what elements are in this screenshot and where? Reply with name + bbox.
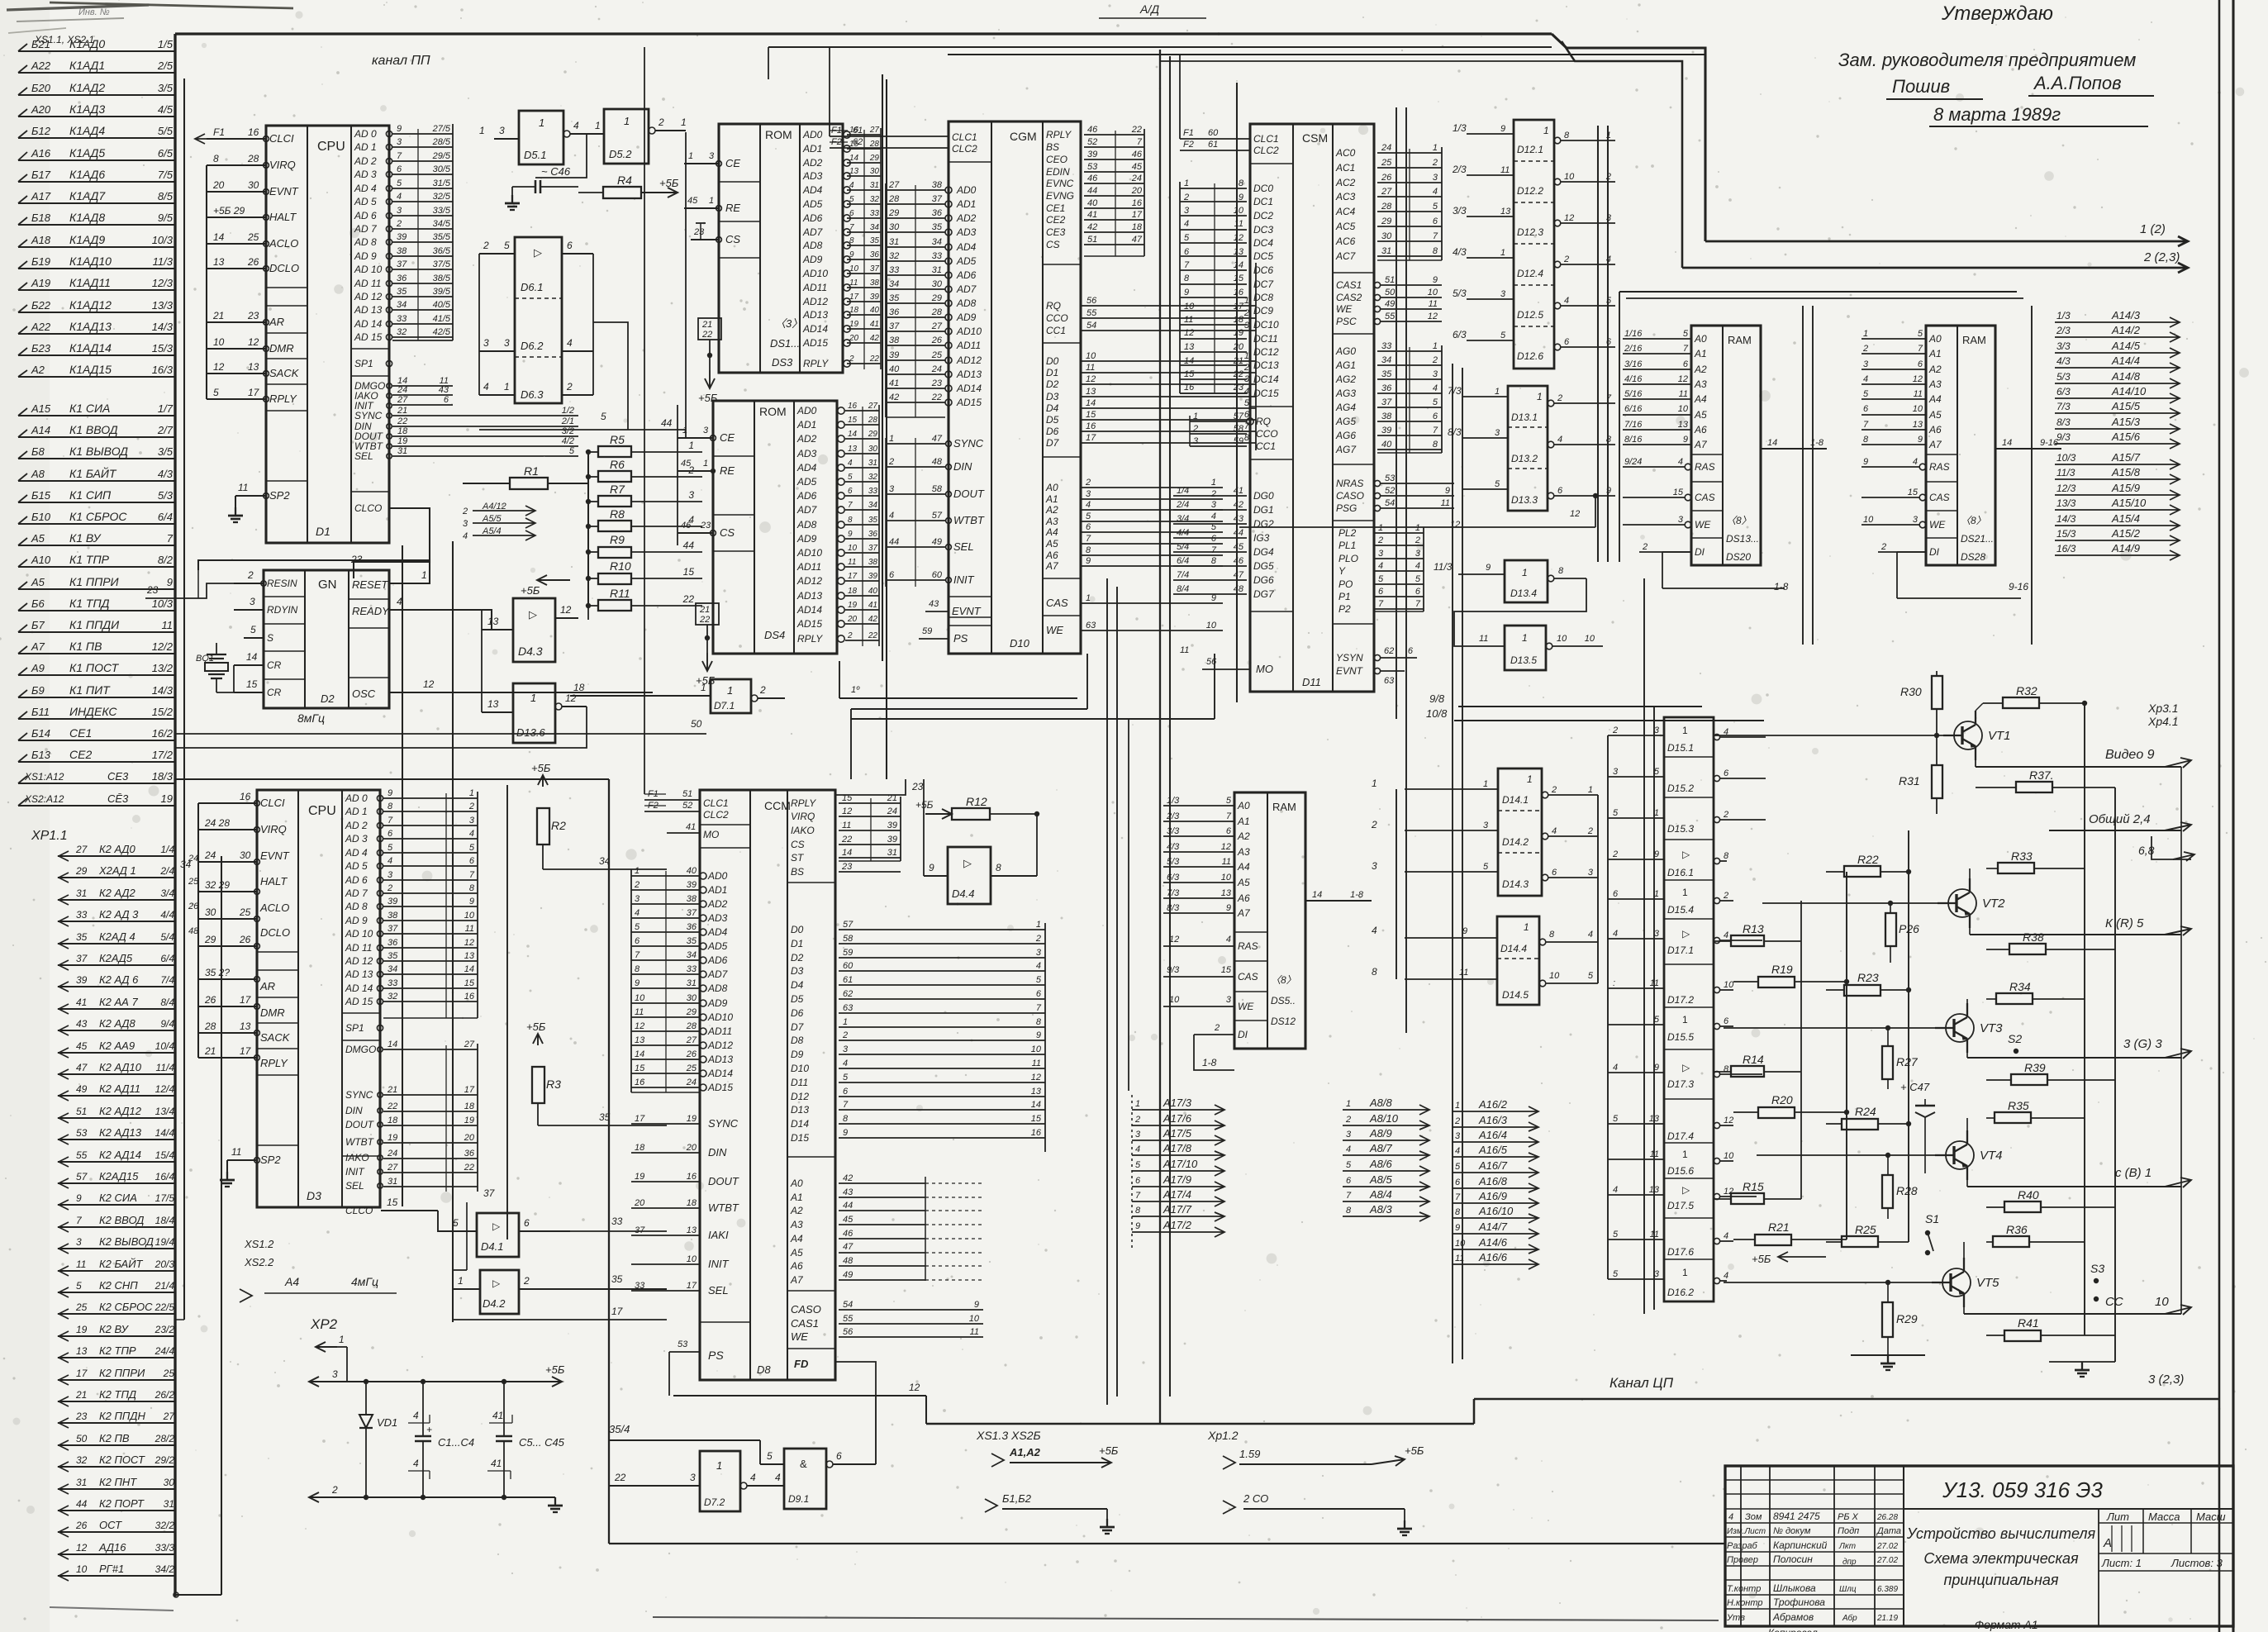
connector pin &#1050;1&#1040;&#1044;1	[18, 72, 176, 74]
svg-text:AD12: AD12	[802, 296, 828, 307]
svg-text:13: 13	[464, 951, 475, 961]
wire D14 output	[1542, 792, 1548, 798]
svg-text:26/2: 26/2	[155, 1389, 175, 1401]
analog ground rail	[1851, 1354, 1925, 1356]
svg-text:1: 1	[1500, 248, 1505, 258]
svg-text:Инв. №: Инв. №	[78, 7, 110, 17]
svg-text:2: 2	[1371, 819, 1377, 830]
svg-text:10: 10	[76, 1563, 88, 1575]
svg-text:D2: D2	[1046, 378, 1059, 390]
svg-text:AD 2: AD 2	[354, 155, 377, 167]
svg-text:10: 10	[1221, 873, 1232, 883]
svg-text:AD1: AD1	[956, 198, 976, 210]
transistor VT4	[1946, 1141, 1974, 1169]
svg-text:1: 1	[1086, 593, 1091, 603]
svg-text:D15: D15	[791, 1132, 809, 1144]
svg-text:AD 0: AD 0	[354, 128, 377, 140]
svg-text:3: 3	[1433, 173, 1438, 183]
svg-text:13: 13	[487, 616, 499, 627]
connector pin &#1050;2 &#1040;&#1044;13	[58, 1139, 176, 1140]
svg-text:53: 53	[678, 1339, 688, 1349]
svg-text:41: 41	[868, 601, 877, 610]
svg-text:30: 30	[870, 167, 880, 176]
svg-text:AD 7: AD 7	[354, 223, 378, 235]
net &#1040;17/7	[1132, 1216, 1224, 1217]
svg-text:К1АД2: К1АД2	[69, 81, 105, 94]
svg-text:9/8: 9/8	[1429, 692, 1445, 705]
wire D12 output	[1554, 261, 1561, 268]
svg-text:ACLO: ACLO	[259, 902, 289, 914]
logic D13.1-D13.3 stack	[1508, 386, 1548, 511]
svg-text:Зом: Зом	[1745, 1512, 1762, 1522]
wire 5/3 to D12	[1467, 298, 1514, 300]
svg-text:34: 34	[687, 950, 697, 960]
svg-text:12: 12	[560, 604, 572, 616]
svg-text:AD 10: AD 10	[345, 928, 373, 940]
svg-text:7: 7	[1086, 534, 1091, 544]
svg-text:VT2: VT2	[1982, 897, 2005, 911]
svg-text:27: 27	[1381, 187, 1392, 197]
svg-text:EVNT: EVNT	[260, 849, 290, 862]
svg-text:К2 АД11: К2 АД11	[99, 1082, 140, 1095]
svg-text:6: 6	[567, 240, 573, 251]
svg-text:К1АД11: К1АД11	[69, 276, 111, 289]
svg-text:12: 12	[213, 361, 225, 373]
svg-text:К2 СНП: К2 СНП	[99, 1279, 138, 1292]
net &#1040;14/5	[2055, 352, 2180, 354]
svg-text:18: 18	[635, 1143, 645, 1153]
connector pin &#1050;2 &#1042;&#1042;&#1054;&#1044;	[58, 1226, 176, 1228]
svg-text:3: 3	[1086, 489, 1091, 499]
svg-text:6: 6	[1086, 522, 1091, 532]
svg-text:D8: D8	[791, 1035, 804, 1046]
svg-text:8: 8	[1239, 178, 1244, 188]
svg-text:30: 30	[240, 849, 251, 861]
svg-text:AD 4: AD 4	[354, 183, 377, 194]
svg-text:20: 20	[1131, 186, 1143, 196]
svg-text:1: 1	[1682, 1267, 1688, 1278]
transistor VT1	[1954, 721, 1982, 749]
svg-text:8: 8	[1724, 851, 1729, 861]
svg-text:D15.1: D15.1	[1667, 742, 1694, 754]
svg-text:А8/7: А8/7	[1369, 1142, 1393, 1154]
connector pin &#1050;2 &#1040;&#1044;8	[58, 1030, 176, 1031]
svg-text:9/24: 9/24	[1624, 457, 1642, 467]
svg-text:38: 38	[397, 246, 407, 256]
svg-text:PSG: PSG	[1336, 502, 1357, 514]
svg-text:4: 4	[1086, 500, 1091, 510]
svg-text:A0: A0	[790, 1178, 803, 1189]
svg-text:AD2: AD2	[956, 212, 977, 224]
svg-text:4: 4	[483, 381, 489, 393]
svg-text:ST: ST	[791, 852, 805, 864]
svg-text:5: 5	[1346, 1160, 1352, 1170]
svg-text:~ C46: ~ C46	[541, 165, 571, 178]
svg-text:AC0: AC0	[1335, 147, 1356, 159]
svg-text:DCLO: DCLO	[269, 262, 299, 274]
wire from D15-D17	[1714, 987, 1719, 992]
svg-text:AD4: AD4	[707, 926, 728, 938]
svg-text:R11: R11	[610, 587, 630, 600]
svg-text:18: 18	[1132, 222, 1143, 232]
svg-text:D10: D10	[791, 1063, 809, 1074]
svg-text:4: 4	[1552, 826, 1557, 836]
svg-text:16/3: 16/3	[152, 364, 174, 376]
svg-text:27: 27	[686, 1035, 697, 1045]
svg-text:DC1: DC1	[1253, 196, 1273, 207]
svg-text:PS: PS	[953, 632, 968, 645]
svg-text:3/3: 3/3	[2056, 340, 2071, 352]
wire D12 output	[1554, 137, 1561, 144]
wire to D14 stack	[1405, 788, 1498, 790]
CSM D11 body	[1250, 124, 1374, 692]
connector pin &#1050;2 &#1055;&#1055;&#1056;&#1048;	[58, 1379, 176, 1381]
resistor R11	[598, 600, 631, 611]
wire to D14 stack	[1405, 871, 1498, 873]
svg-text:1: 1	[1682, 725, 1688, 736]
connector pin &#1050;2 &#1055;&#1053;&#1058;	[58, 1488, 176, 1490]
svg-text:9/4: 9/4	[160, 1018, 174, 1030]
svg-text:30: 30	[687, 993, 697, 1003]
svg-text:55: 55	[843, 1314, 853, 1324]
svg-text:4: 4	[848, 459, 853, 468]
connector pin &#1050;1&#1040;&#1044;15	[18, 376, 176, 378]
svg-text:1: 1	[1184, 178, 1189, 188]
svg-text:4: 4	[413, 1458, 419, 1469]
svg-text:AD3: AD3	[802, 170, 823, 182]
svg-text:11: 11	[1222, 857, 1231, 867]
svg-text:А8/6: А8/6	[1369, 1158, 1393, 1170]
svg-text:1: 1	[1588, 785, 1593, 795]
svg-text:4: 4	[1184, 219, 1189, 229]
svg-text:28: 28	[204, 1021, 216, 1032]
svg-text:11: 11	[1455, 1254, 1464, 1263]
svg-text:57: 57	[932, 511, 943, 521]
svg-text:Канал ЦП: Канал ЦП	[1609, 1375, 1674, 1391]
svg-text:12: 12	[1428, 312, 1438, 321]
svg-text:36: 36	[889, 307, 900, 317]
svg-text:8: 8	[1036, 1017, 1042, 1027]
connector pin &#1050;2 &#1040;&#1044;12	[58, 1117, 176, 1119]
svg-text:VD1: VD1	[377, 1416, 397, 1429]
svg-text:6: 6	[1552, 868, 1557, 878]
svg-text:62: 62	[1384, 646, 1394, 656]
svg-text:А4/12: А4/12	[482, 502, 506, 511]
svg-text:12: 12	[1221, 842, 1231, 852]
connector pin &#1054;&#1057;&#1058;	[58, 1531, 176, 1533]
svg-text:16: 16	[1184, 383, 1195, 393]
svg-text:AD6: AD6	[802, 212, 823, 224]
svg-text:6: 6	[1433, 412, 1438, 421]
resistor R27	[1882, 1046, 1893, 1079]
svg-text:AD8: AD8	[796, 519, 817, 531]
svg-text:3/5: 3/5	[158, 82, 174, 94]
svg-text:4: 4	[1211, 511, 1216, 521]
svg-text:14: 14	[1234, 260, 1243, 270]
svg-text:AG3: AG3	[1335, 388, 1356, 399]
svg-text:19: 19	[635, 1172, 644, 1182]
svg-text:26: 26	[239, 934, 251, 945]
svg-text:DI: DI	[1238, 1029, 1248, 1040]
svg-text:DS13...: DS13...	[1726, 533, 1759, 545]
svg-text:A5: A5	[1045, 538, 1058, 550]
svg-text:19: 19	[848, 601, 858, 610]
svg-text:3: 3	[1913, 515, 1919, 525]
svg-text:11: 11	[231, 1146, 241, 1158]
svg-text:РБ Х: РБ Х	[1838, 1512, 1859, 1522]
svg-text:14: 14	[848, 430, 858, 439]
wire CCM bottom 12	[835, 1362, 876, 1396]
svg-text:6: 6	[1378, 587, 1384, 597]
svg-text:27: 27	[163, 1411, 176, 1422]
svg-text:16/2: 16/2	[152, 727, 174, 740]
resistor R38	[2009, 944, 2046, 954]
svg-text:12: 12	[842, 806, 852, 816]
svg-text:17: 17	[635, 1114, 645, 1124]
svg-text:1: 1	[339, 1334, 345, 1345]
svg-text:12/3: 12/3	[152, 277, 174, 289]
svg-text:CAS1: CAS1	[1336, 279, 1362, 291]
svg-text:4: 4	[1415, 561, 1420, 571]
svg-text:7: 7	[1378, 599, 1384, 609]
svg-text:Абр: Абр	[1842, 1613, 1857, 1623]
svg-text:36: 36	[870, 250, 880, 259]
svg-text:AD11: AD11	[707, 1025, 732, 1037]
svg-text:10: 10	[1913, 404, 1923, 414]
svg-text:27/5: 27/5	[432, 124, 451, 134]
svg-text:33: 33	[870, 209, 880, 218]
svg-text:DG5: DG5	[1253, 560, 1274, 572]
svg-text:13: 13	[240, 1021, 251, 1032]
svg-text:SEL: SEL	[708, 1284, 729, 1297]
svg-text:9: 9	[388, 788, 392, 798]
svg-text:53: 53	[1385, 473, 1396, 483]
ROM DS1-DS3 pin ladder	[847, 134, 881, 136]
wire +5B rail	[330, 1381, 541, 1382]
wire to D15-D17	[1608, 859, 1664, 860]
connector pin &#1057;&#1045;3	[18, 783, 176, 784]
svg-text:43: 43	[843, 1187, 853, 1197]
svg-text:54: 54	[1385, 498, 1395, 508]
svg-text:7: 7	[1433, 231, 1438, 241]
connector pin &#1050;1 &#1057;&#1041;&#1056;&#1054;&#1057;	[18, 523, 176, 525]
svg-text:AD0: AD0	[707, 870, 728, 882]
svg-text:6: 6	[1724, 1016, 1729, 1026]
svg-text:24: 24	[931, 364, 942, 374]
CPU D1 control pin ladder	[392, 385, 453, 387]
svg-text:34: 34	[388, 964, 397, 974]
svg-text:AD15: AD15	[802, 337, 828, 349]
svg-text:29: 29	[869, 154, 880, 163]
svg-text:14: 14	[1184, 356, 1194, 366]
wire to D15-D17	[1608, 817, 1664, 819]
bus line top right	[1552, 34, 1705, 241]
svg-text:4: 4	[1378, 561, 1383, 571]
svg-text:2: 2	[1723, 891, 1728, 901]
svg-text:39: 39	[388, 897, 397, 906]
svg-text:CS: CS	[1046, 239, 1060, 250]
svg-text:3: 3	[688, 489, 694, 501]
svg-text:SP2: SP2	[260, 1154, 281, 1166]
svg-text:2: 2	[1642, 542, 1648, 552]
net &#1040;15/7	[2055, 464, 2180, 465]
connector pin &#1050;2 &#1042;&#1059;	[58, 1335, 176, 1337]
net &#1040;15/4	[2055, 525, 2180, 526]
svg-text:D14.2: D14.2	[1502, 836, 1529, 848]
svg-text:A7: A7	[1237, 907, 1251, 919]
svg-text:51: 51	[76, 1106, 87, 1117]
svg-text:11: 11	[1234, 219, 1243, 229]
svg-text:10: 10	[1724, 1151, 1734, 1161]
svg-text:AD 5: AD 5	[354, 196, 377, 207]
svg-text:Б12: Б12	[31, 125, 51, 137]
net &#1040;16/3	[1452, 1126, 1538, 1128]
svg-text:31: 31	[388, 1177, 397, 1187]
svg-text:29/2: 29/2	[155, 1454, 175, 1466]
svg-text:дпр: дпр	[1842, 1558, 1857, 1567]
svg-text:CR: CR	[267, 687, 282, 698]
svg-text:IAKI: IAKI	[708, 1229, 729, 1241]
svg-text:8: 8	[848, 516, 853, 525]
svg-text:D1: D1	[1046, 367, 1058, 378]
svg-text:К1АД1: К1АД1	[69, 59, 105, 72]
svg-text:XS1.3 XS2Б: XS1.3 XS2Б	[976, 1429, 1041, 1442]
svg-text:Формат А1: Формат А1	[1975, 1618, 2038, 1631]
svg-text:7: 7	[1226, 811, 1232, 821]
connector pin &#1050;2 &#1058;&#1055;&#1056;	[58, 1357, 176, 1358]
wire 1/3 to D12	[1467, 133, 1514, 135]
svg-text:А17: А17	[31, 190, 51, 202]
svg-text:R35: R35	[2008, 1099, 2029, 1112]
svg-text:Лит: Лит	[2106, 1511, 2129, 1523]
net &#1040;17/10	[1132, 1170, 1224, 1172]
svg-text:2: 2	[842, 1030, 848, 1040]
wire READY to D4.3	[389, 610, 513, 630]
svg-text:AD3: AD3	[956, 226, 977, 238]
svg-text:23: 23	[247, 310, 259, 321]
svg-text:Шлц: Шлц	[1839, 1585, 1857, 1594]
wire D12 output	[1554, 178, 1561, 185]
buffer D4.1	[477, 1213, 519, 1257]
svg-text:8: 8	[1606, 435, 1612, 445]
svg-text:10: 10	[2155, 1295, 2169, 1309]
svg-text:A3: A3	[1928, 378, 1942, 390]
svg-text:37: 37	[1381, 397, 1392, 407]
svg-text:1-8: 1-8	[1774, 581, 1789, 592]
svg-text:13/3: 13/3	[152, 299, 174, 312]
svg-text:R27: R27	[1896, 1055, 1919, 1068]
svg-text:AD 8: AD 8	[354, 236, 377, 248]
svg-text:AD 4: AD 4	[345, 847, 368, 859]
svg-text:15/4: 15/4	[155, 1149, 175, 1161]
svg-text:43: 43	[1234, 514, 1244, 524]
svg-text:AD 10: AD 10	[354, 264, 383, 275]
svg-text:2/3: 2/3	[1166, 811, 1180, 821]
svg-text:2/3: 2/3	[2056, 325, 2071, 336]
svg-text:2: 2	[1454, 1116, 1460, 1126]
svg-text:SP1: SP1	[345, 1022, 364, 1034]
svg-text:27.02: 27.02	[1876, 1542, 1898, 1551]
svg-text:39: 39	[1381, 426, 1391, 435]
svg-text:24 28: 24 28	[204, 817, 230, 829]
svg-text:17: 17	[240, 1045, 252, 1057]
svg-text:SACK: SACK	[269, 367, 300, 379]
svg-text:16: 16	[635, 1078, 645, 1087]
svg-text:A6: A6	[1045, 550, 1058, 561]
logic D15.4	[1664, 879, 1714, 881]
svg-text:AD14: AD14	[796, 604, 822, 616]
svg-text:DOUT: DOUT	[345, 1119, 375, 1130]
wire to D15-D17	[1608, 1072, 1664, 1073]
net &#1040;14/8	[2055, 383, 2180, 384]
svg-text:9: 9	[1226, 903, 1231, 913]
svg-text:16/3: 16/3	[2056, 543, 2076, 554]
svg-text:40: 40	[870, 306, 880, 315]
svg-text:Устройство вычислителя: Устройство вычислителя	[1906, 1525, 2096, 1542]
svg-text:24: 24	[887, 806, 897, 816]
svg-text:2: 2	[1432, 355, 1438, 365]
connector pin &#1050;2 &#1057;&#1048;&#1040;	[58, 1204, 176, 1206]
svg-text:22: 22	[841, 835, 852, 845]
svg-text:A3: A3	[790, 1219, 803, 1230]
svg-text:S1: S1	[1925, 1212, 1939, 1225]
svg-text:31: 31	[164, 1498, 174, 1510]
svg-text:Утверждаю: Утверждаю	[1941, 2, 2053, 25]
svg-text:AC4: AC4	[1335, 206, 1356, 217]
svg-text:4: 4	[1372, 925, 1377, 936]
svg-text:26: 26	[931, 335, 943, 345]
resistor R21	[1755, 1235, 1791, 1245]
svg-text:AD9: AD9	[707, 997, 728, 1009]
svg-text:52: 52	[1087, 137, 1097, 147]
svg-text:51: 51	[1087, 235, 1097, 245]
svg-text:5/3: 5/3	[1453, 288, 1467, 299]
svg-text:К2 АД 3: К2 АД 3	[99, 908, 139, 921]
svg-text:D13.6: D13.6	[516, 726, 545, 739]
svg-text:1: 1	[1682, 1149, 1688, 1160]
svg-text:9/5: 9/5	[158, 212, 174, 224]
svg-text:21: 21	[699, 605, 710, 615]
svg-text:R15: R15	[1743, 1180, 1764, 1193]
svg-text:13: 13	[1184, 342, 1195, 352]
svg-text:49: 49	[932, 537, 942, 547]
svg-text:1: 1	[1524, 921, 1529, 933]
svg-text:27: 27	[931, 321, 943, 331]
svg-text:AD12: AD12	[707, 1040, 733, 1051]
svg-text:55: 55	[76, 1149, 88, 1161]
svg-text:8/4: 8/4	[1177, 584, 1189, 594]
svg-text:А8/5: А8/5	[1369, 1173, 1393, 1186]
svg-text:34: 34	[1381, 355, 1391, 365]
svg-text:6: 6	[1918, 359, 1923, 369]
svg-text:10: 10	[1585, 634, 1595, 644]
svg-text:Б18: Б18	[31, 212, 51, 224]
svg-text:12/4: 12/4	[155, 1083, 175, 1095]
svg-text:AD4: AD4	[802, 184, 823, 196]
svg-text:18: 18	[388, 1116, 398, 1125]
svg-text:A7: A7	[1045, 560, 1059, 572]
svg-text:10: 10	[213, 336, 225, 348]
CPU D3 left pin stubs	[198, 802, 257, 804]
svg-text:▷: ▷	[1682, 1184, 1690, 1196]
svg-text:AD2: AD2	[802, 157, 823, 169]
svg-text:21.19: 21.19	[1876, 1614, 1898, 1623]
svg-text:15: 15	[842, 793, 853, 803]
svg-text:11: 11	[1441, 498, 1450, 508]
RAM DS13... DI pin	[1639, 551, 1691, 553]
svg-text:23: 23	[911, 781, 924, 792]
svg-text:EVNT: EVNT	[1336, 665, 1364, 677]
